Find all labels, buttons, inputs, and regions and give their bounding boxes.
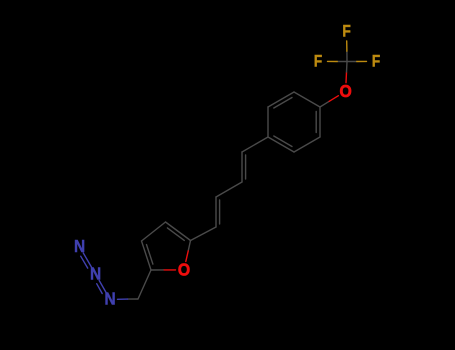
svg-text:N: N [104,290,115,309]
svg-text:N: N [74,237,85,256]
svg-text:F: F [342,22,350,40]
svg-text:O: O [339,81,351,101]
svg-text:N: N [90,264,101,283]
svg-text:O: O [178,260,190,280]
svg-text:F: F [314,52,322,70]
svg-text:F: F [372,52,380,70]
